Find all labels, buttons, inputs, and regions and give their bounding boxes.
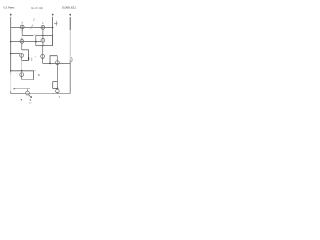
wire left rail bottom corner xyxy=(10,91,12,93)
wire row3 loop top xyxy=(22,49,29,51)
wire rail row3 stub xyxy=(11,53,20,55)
transistor Q10 xyxy=(26,91,32,98)
transistor Q6 xyxy=(20,73,24,80)
node junction row3 left rail xyxy=(10,53,12,55)
label speck row3 xyxy=(35,55,36,58)
wire railA hop over crossing xyxy=(33,34,36,37)
wire Q2 emitter chain vertical xyxy=(42,29,44,38)
label speck above Q2 xyxy=(41,22,44,24)
wire mid rail vertical xyxy=(52,17,54,46)
transistor Q9 xyxy=(56,89,60,93)
node junction row2 crossing xyxy=(35,41,37,43)
wire row3 loop right vertical xyxy=(28,50,30,57)
wire row3 loop bottom xyxy=(22,59,29,61)
wire left rail faint lower xyxy=(10,71,12,75)
wire row2 loop bottom xyxy=(36,45,53,47)
transistor Q4 xyxy=(41,38,45,45)
wire rail row2 xyxy=(11,41,41,43)
wire bottom-right loop top xyxy=(53,81,58,83)
label speck right of row4 xyxy=(38,74,40,75)
wire row3 to row4 faint xyxy=(21,60,23,70)
transistor Q3 xyxy=(20,38,24,46)
wire corner top line xyxy=(50,56,57,64)
wire bottom rail mid xyxy=(24,93,52,95)
transistor Q2 xyxy=(41,26,45,30)
wire bottom-right loop bottom xyxy=(53,88,58,90)
wire crossing vertical xyxy=(35,36,37,46)
node junction row2 left rail xyxy=(10,41,12,43)
node knot on bias line xyxy=(14,88,16,89)
wire bias line left xyxy=(13,88,30,90)
wire rail row4 xyxy=(11,70,34,72)
wire right rail vertical upper xyxy=(69,17,71,30)
transistor Q5 xyxy=(20,54,24,61)
wire Q7 emitter down xyxy=(42,58,44,63)
label cross near mid rail top xyxy=(54,21,58,26)
label tick right of row3 xyxy=(31,57,33,61)
wire railA left segment xyxy=(22,35,33,37)
wire bottom rail right xyxy=(52,93,70,95)
wire row4 loop right vertical xyxy=(33,71,35,80)
wire node rail mid-bottom xyxy=(43,62,71,64)
node junction row4 left rail xyxy=(10,70,12,72)
terminal arrow top of mid rail xyxy=(52,14,54,16)
wire Q3 to row3 top xyxy=(21,45,23,50)
wire Q8 emitter long vertical xyxy=(56,65,58,89)
wire rail row4 faint extension xyxy=(34,70,36,72)
wire Q10 base stem xyxy=(27,89,29,92)
node junction railA chain xyxy=(42,35,43,36)
wire Q4 chain to Q7 xyxy=(42,46,44,55)
label faint smudge bottom xyxy=(29,102,31,103)
node junction row1 mid rail xyxy=(52,27,54,29)
label speck bottom-right xyxy=(59,96,60,97)
wire row4 loop bottom xyxy=(22,79,34,81)
wire right rail vertical lower xyxy=(69,60,71,94)
transistor Q8 xyxy=(56,61,60,66)
transistor Q7 xyxy=(41,55,45,60)
wire Q1 emitter to railA xyxy=(21,31,23,35)
node junction row4 column xyxy=(21,70,23,72)
label dot bottom-left xyxy=(21,99,22,100)
wire right rail vertical middle faint xyxy=(69,30,71,60)
label speck top xyxy=(33,19,35,21)
wire railA right segment xyxy=(36,35,53,37)
svg-text:5,068,621: 5,068,621 xyxy=(62,6,76,10)
wire bottom rail left xyxy=(11,93,24,95)
node junction mid-bottom xyxy=(49,63,51,65)
wire Q8 top stem xyxy=(56,56,58,61)
label speck below Q10 arrow xyxy=(30,99,31,101)
node junction bottom-right xyxy=(57,88,59,90)
wire rail row1 xyxy=(11,27,53,29)
terminal arrow top of right rail xyxy=(70,14,72,16)
label slash row1 xyxy=(31,25,33,29)
svg-text:Nov. 26, 1991: Nov. 26, 1991 xyxy=(31,6,43,10)
terminal arrow top of left rail xyxy=(10,14,12,16)
transistor Q1 xyxy=(20,25,24,32)
label curve near right rail xyxy=(70,57,73,62)
node junction loop bottom chain xyxy=(42,45,43,46)
svg-text:U.S. Patent: U.S. Patent xyxy=(4,6,15,10)
label speck above Q1 xyxy=(21,22,24,24)
wire left rail vertical xyxy=(10,17,12,71)
wire bottom-right loop left vertical xyxy=(52,82,54,89)
wire row2 loop right vertical xyxy=(52,36,54,46)
wire row3 loop right vertical dark lower xyxy=(28,57,30,60)
